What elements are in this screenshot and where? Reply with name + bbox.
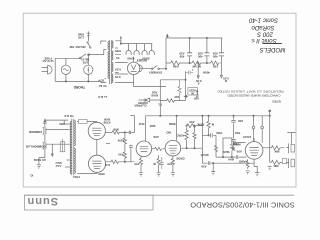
fuse F1	[61, 65, 70, 74]
grid resistor R11	[111, 160, 118, 164]
node dot rail3	[206, 62, 207, 63]
node dot C11	[233, 115, 234, 116]
top bus B+	[146, 116, 270, 141]
svg-text:200 S: 200 S	[257, 30, 274, 37]
ground bus rail	[166, 37, 222, 39]
node dot cap rail	[120, 43, 121, 44]
resistor R2	[192, 61, 202, 65]
bottom wire 2	[202, 161, 254, 165]
svg-text:SONIC III/1-40/200S/SORADO: SONIC III/1-40/200S/SORADO	[190, 200, 295, 209]
svg-text:TE-#: TE-#	[98, 78, 105, 82]
svg-text:BO#: BO#	[149, 124, 155, 128]
ground lug symbol	[87, 31, 91, 41]
handwritten model list (upside down)	[248, 17, 285, 53]
filter cap section C1a	[126, 44, 131, 55]
wire bottom AC rail	[55, 81, 106, 82]
grid stopper R17	[270, 160, 282, 164]
V8 cathode	[253, 159, 255, 166]
svg-text:CAPACITORS IN MFD UNLESS NOTED: CAPACITORS IN MFD UNLESS NOTED	[227, 93, 281, 97]
AC balance cap	[60, 142, 65, 152]
ground symbol speaker	[37, 153, 45, 168]
wire pilot to bottom rail	[87, 74, 89, 81]
svg-text:A50: A50	[118, 152, 124, 156]
input jack J1	[286, 143, 288, 153]
node dot wireA	[124, 132, 125, 133]
T2 secondary taps	[64, 120, 70, 167]
svg-text:RESISTORS 1/2 WATT UNLESS NOTE: RESISTORS 1/2 WATT UNLESS NOTED	[217, 90, 284, 94]
svg-text:LUG: LUG	[78, 35, 84, 39]
heater feed arrow 2	[220, 75, 222, 78]
heater feed arrow 1	[197, 63, 199, 78]
ground riser3	[268, 167, 272, 170]
standby switch S2	[153, 65, 158, 68]
svg-text:T#OA: T#OA	[73, 175, 80, 179]
node dot ground rail 2	[189, 37, 190, 38]
svg-text:CLIPPER: CLIPPER	[134, 104, 146, 108]
node dot R13	[186, 125, 187, 126]
svg-text:THORD: THORD	[73, 85, 85, 89]
wire jack bus	[44, 126, 46, 153]
speaker jack J4 output	[43, 143, 46, 149]
ground V8	[254, 166, 259, 175]
svg-text:1K: 1K	[191, 92, 195, 96]
svg-text:KT88: KT88	[103, 121, 110, 125]
svg-text:TO B-C: TO B-C	[64, 114, 74, 118]
T2 primary winding	[74, 121, 75, 146]
svg-text:#20: #20	[174, 95, 179, 99]
V5 plate wire	[77, 172, 97, 173]
V8 inner bars	[249, 148, 258, 156]
T2 secondary winding	[70, 122, 71, 174]
svg-text:Lo B-C: Lo B-C	[98, 95, 107, 99]
node dot box bottom	[222, 156, 223, 157]
bus tick arrow	[166, 34, 168, 38]
svg-text:68K: 68K	[273, 164, 278, 168]
svg-text:STANDBY: STANDBY	[149, 70, 162, 74]
V7 plate load	[181, 140, 203, 148]
B+ node riser 3	[206, 38, 208, 63]
wire V8 plate top	[253, 138, 255, 142]
volume pot resistor	[230, 144, 233, 150]
long vertical bus	[130, 116, 134, 133]
feedback arrow symbol	[43, 119, 47, 126]
shared bypass cap	[160, 157, 164, 169]
svg-text:3-6K: 3-6K	[173, 65, 179, 69]
node dot hang	[208, 115, 209, 116]
divider chain vertical	[124, 132, 126, 161]
svg-text:6.3V: 6.3V	[115, 75, 121, 79]
filter cap C2	[187, 53, 192, 56]
plate resistor R13 horizontal	[187, 124, 204, 128]
wire V1 plate right	[140, 67, 151, 69]
bias pot box	[188, 88, 198, 95]
node dot box bottom 2	[231, 156, 232, 157]
svg-text:A50: A50	[189, 120, 195, 124]
ground under tone wire	[211, 163, 215, 175]
handwriting underline	[263, 43, 282, 45]
V4 plate wire	[77, 121, 97, 124]
speaker return arrow	[51, 144, 53, 156]
node dot pilot top	[88, 54, 89, 55]
wire standby to B+ riser	[159, 68, 166, 70]
resistor R1	[171, 61, 181, 65]
svg-text:A50: A50	[167, 162, 173, 166]
B+ node riser 2	[189, 38, 191, 63]
B+ rail with dropping resistors	[166, 62, 221, 64]
ground R15	[246, 171, 250, 174]
wire fuse to top rail	[65, 58, 67, 65]
svg-text:4K 5W: 4K 5W	[192, 65, 201, 69]
bias pot wiper arrow	[184, 95, 188, 97]
grid stopper R16	[263, 146, 285, 150]
interstage resistor	[155, 147, 162, 150]
V1 plate riser	[133, 57, 135, 63]
volume pot box	[223, 138, 232, 157]
ground V6	[139, 167, 143, 177]
coupling cap C12	[231, 140, 245, 143]
svg-text:LPS: LPS	[82, 61, 88, 65]
node dot pilot bottom	[88, 81, 89, 82]
V8 riser 3	[269, 112, 271, 148]
node dot wireB	[124, 161, 125, 162]
svg-text:40/450: 40/450	[127, 57, 135, 60]
svg-text:A50K: A50K	[197, 123, 204, 127]
coupling cap C8	[129, 131, 130, 134]
wire pilot to top rail	[87, 55, 89, 65]
B+ arrow up	[120, 38, 122, 44]
wire bias to amp	[159, 101, 161, 116]
hanging resistor from bus	[207, 116, 210, 136]
bias loop top wire	[160, 79, 185, 81]
svg-text:117V-AC: 117V-AC	[42, 59, 53, 63]
V1 filament	[131, 65, 137, 72]
B+ node riser 4	[220, 38, 222, 75]
svg-text:BIAS: BIAS	[151, 93, 158, 97]
pilot lamp I1	[84, 65, 93, 74]
V8 riser 2	[261, 116, 263, 126]
svg-text:A50: A50	[201, 164, 207, 168]
power tube V4 envelope	[88, 122, 105, 139]
V6 cathode resistor	[139, 156, 142, 166]
svg-text:8-O: 8-O	[104, 163, 109, 167]
node dot heater1	[198, 62, 199, 63]
svg-text:450: 450	[179, 55, 184, 59]
title rule line	[24, 194, 294, 196]
node dot bus bias	[160, 115, 161, 116]
svg-text:5V: 5V	[116, 56, 120, 60]
svg-text:J-AMO: J-AMO	[238, 159, 248, 163]
svg-text:ON-OFF SW: ON-OFF SW	[69, 45, 85, 49]
svg-text:10K: 10K	[213, 65, 218, 69]
T1 primary stubs	[101, 41, 106, 79]
power tube V5 envelope	[88, 155, 105, 172]
wire J3 to OT	[46, 129, 70, 131]
svg-text:WAS: WAS	[223, 150, 230, 154]
svg-text:AC STAB: AC STAB	[34, 158, 46, 162]
bias loop left wire	[159, 80, 161, 101]
bias diode D1	[139, 98, 161, 102]
T1 secondary stubs	[115, 41, 134, 83]
svg-text:T-1: T-1	[158, 102, 162, 106]
svg-text:IKW: IKW	[113, 128, 119, 132]
svg-text:TOM: TOM	[216, 131, 223, 135]
filter cap C4	[219, 53, 224, 56]
driver tube V7 envelope	[165, 140, 181, 156]
screen resistor box	[79, 120, 88, 124]
ground near notes	[195, 91, 199, 98]
node dot bus div	[202, 115, 203, 116]
switch S1 on-off	[80, 54, 86, 58]
V4 cathode down	[96, 140, 98, 156]
wire V1 cathode down	[134, 75, 166, 87]
cap C10	[202, 133, 216, 137]
grid resistor R10	[112, 131, 119, 135]
node dot bus V7	[176, 115, 177, 116]
svg-text:#GRO: #GRO	[176, 134, 185, 138]
svg-text:|4A#: |4A#	[228, 158, 234, 162]
filter cap section C1b	[134, 44, 139, 55]
svg-text:450: 450	[198, 55, 203, 59]
printed notes block (upside down)	[217, 90, 284, 104]
lug switch contacts	[87, 42, 88, 43]
bypass cap C9	[129, 145, 133, 162]
svg-text:A50: A50	[238, 119, 244, 123]
svg-text:68K: 68K	[274, 150, 279, 154]
resistor R10b vertical	[123, 138, 126, 144]
tone slope wire	[215, 135, 217, 157]
T1 secondary winding (right)	[112, 41, 113, 83]
svg-text:700V: 700V	[115, 49, 122, 53]
svg-text:450: 450	[213, 55, 218, 59]
Sunn logo box	[24, 195, 153, 210]
cathode stub V4	[106, 143, 110, 145]
input jack J2	[286, 158, 288, 168]
cathode resistor R15	[246, 159, 249, 169]
svg-text:WOB: WOB	[169, 122, 176, 126]
svg-text:B: B	[225, 79, 227, 83]
resistor R11b vertical	[123, 152, 126, 158]
svg-text:IK: IK	[153, 162, 156, 166]
filter cap section C1c	[142, 44, 147, 55]
bias loop right riser	[185, 71, 187, 100]
svg-text:GROS: GROS	[176, 157, 184, 161]
node dot fuse bottom	[65, 81, 66, 82]
shared cathode resistor	[157, 155, 160, 166]
V6 inner bars	[140, 146, 148, 151]
coupling cap C11	[231, 116, 235, 139]
svg-text:AAJ: AAJ	[55, 164, 61, 168]
B+ riser	[165, 38, 167, 69]
vertical divider wire	[201, 116, 203, 163]
bias loop bottom wire	[160, 100, 185, 102]
wire left AC bus	[54, 58, 56, 81]
wire top left bus	[45, 119, 69, 121]
resistor R5	[167, 99, 175, 103]
V1 base bump	[139, 65, 142, 72]
node dot riser/std	[165, 68, 166, 69]
svg-text:5V 3A: 5V 3A	[99, 84, 107, 88]
svg-text:SoRaDo: SoRaDo	[251, 24, 275, 31]
V7 cathode resistor	[171, 156, 174, 166]
pot wiper arrow	[232, 147, 235, 151]
svg-text:MAJA: MAJA	[201, 153, 209, 157]
bias resistor R4 vertical	[178, 80, 181, 101]
svg-text:A50#: A50#	[117, 138, 124, 142]
plate resistor R12 vertical	[185, 127, 188, 140]
svg-text:Sunn: Sunn	[27, 195, 59, 207]
wire V6 to V7	[152, 148, 165, 150]
filter cap C3	[204, 53, 209, 56]
rectifier tube V1 5Y3 envelope	[127, 62, 139, 74]
svg-text:TOA: TOA	[235, 131, 241, 135]
output transformer T2 core	[72, 119, 74, 176]
svg-text:Sonic II ≤: Sonic II ≤	[251, 37, 277, 44]
ground shared	[157, 167, 161, 177]
V7 inner bars	[169, 146, 177, 154]
svg-text:TOM: TOM	[232, 142, 239, 146]
svg-text:COMMON LAB: COMMON LAB	[26, 145, 46, 149]
wire A plate V4	[106, 131, 135, 133]
svg-text:NOTED: NOTED	[271, 99, 281, 103]
node dot bus right	[253, 115, 254, 116]
pot vertical resistor R14	[214, 145, 217, 151]
node dot ground rail 3	[206, 37, 207, 38]
svg-text:PLR: PLR	[139, 122, 145, 126]
svg-text:A20: A20	[194, 97, 200, 101]
bottom wire 1	[216, 155, 246, 159]
svg-text:A: A	[198, 82, 200, 86]
svg-text:40/50: 40/50	[202, 70, 209, 74]
resistor R3	[211, 61, 220, 65]
bus drop to V7	[176, 116, 178, 141]
node dot rail2	[189, 62, 190, 63]
wire riser3 to R17	[269, 148, 271, 163]
ground V7	[171, 167, 175, 177]
wire fuse to bottom rail	[65, 74, 67, 81]
wire top AC rail right	[89, 49, 107, 54]
svg-text:A50: A50	[236, 149, 242, 153]
svg-text:6.3V: 6.3V	[115, 67, 121, 71]
node dot hang bottom	[208, 135, 209, 136]
power transformer T1 core	[110, 40, 112, 84]
V8 riser 1	[253, 116, 255, 126]
V6 plate load resistor	[193, 126, 196, 148]
AC plug P1	[42, 65, 52, 74]
svg-text:6550: 6550	[98, 172, 105, 176]
svg-text:COMMON: COMMON	[29, 130, 42, 134]
node dot bias top	[185, 79, 186, 80]
svg-text:Sonic 1-40: Sonic 1-40	[248, 17, 278, 24]
node dot plate load	[194, 125, 195, 126]
V4 grid bars	[92, 128, 101, 136]
filter cap can rail	[121, 43, 152, 45]
V5 grid bars	[92, 161, 101, 169]
svg-text:A50: A50	[134, 162, 140, 166]
node dot V7 plate	[186, 148, 187, 149]
node dot tone gnd	[213, 163, 214, 164]
T1 primary winding (left)	[108, 41, 109, 78]
wire B cathode V5	[106, 161, 135, 163]
driver tube V6 envelope	[136, 141, 152, 157]
wire J4 to OT	[46, 143, 70, 145]
jack J1 shield riser	[287, 133, 295, 145]
bias filter cap C5	[186, 69, 194, 74]
speaker jack J3 common	[43, 128, 46, 134]
input tube V8 envelope	[245, 142, 263, 160]
wire top AC rail left	[55, 57, 80, 59]
svg-text:12AX7: 12AX7	[242, 135, 251, 139]
svg-text:A#D: A#D	[153, 135, 159, 139]
border frame of schematic sheet	[23, 13, 296, 187]
svg-text:MSI: MSI	[59, 122, 64, 126]
svg-text:MODELS: MODELS	[260, 46, 286, 53]
svg-text:20/450: 20/450	[142, 57, 150, 60]
filter cap section C1d	[149, 44, 154, 55]
